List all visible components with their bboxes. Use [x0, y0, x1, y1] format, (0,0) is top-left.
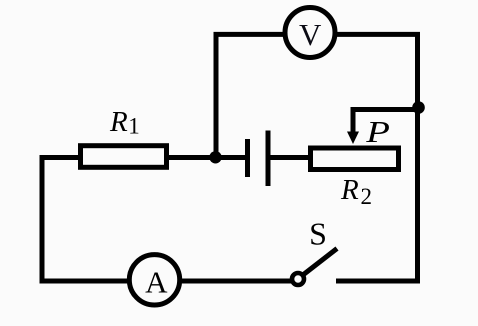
rheostat R2 body [311, 148, 399, 170]
svg-text:2: 2 [361, 184, 373, 209]
svg-text:A: A [145, 265, 168, 300]
ammeter A [129, 255, 179, 305]
resistor R1 [81, 146, 167, 168]
battery: short plate (negative) [245, 139, 250, 177]
junction node at wiper tap on right wire [412, 101, 425, 114]
svg-text:P: P [365, 115, 390, 149]
wire: wiper connection from right vertical to arrow P [353, 110, 418, 134]
wire left loop: R1 left lead, left vertical, bottom to ammeter [42, 158, 127, 282]
junction node at battery/voltmeter tap [209, 151, 221, 163]
wire: ammeter right lead to switch pivot [182, 279, 291, 284]
svg-text:S: S [309, 215, 327, 251]
wire: R1 right lead to battery [167, 155, 246, 160]
svg-text:V: V [299, 17, 322, 52]
wire: battery to R2 left lead [269, 155, 310, 160]
svg-text:1: 1 [128, 114, 140, 139]
battery: long plate (positive) [266, 131, 271, 187]
wiper arrowhead P [347, 132, 359, 145]
wire top-left: voltmeter left lead to vertical drop to battery node [216, 34, 284, 157]
wire top-right: voltmeter right lead, right vertical, bottom-right to switch [336, 34, 418, 281]
svg-text:R: R [340, 174, 359, 206]
switch S blade [304, 249, 338, 275]
svg-text:R: R [109, 106, 128, 138]
voltmeter V [285, 8, 335, 58]
switch S pivot circle [292, 273, 304, 285]
